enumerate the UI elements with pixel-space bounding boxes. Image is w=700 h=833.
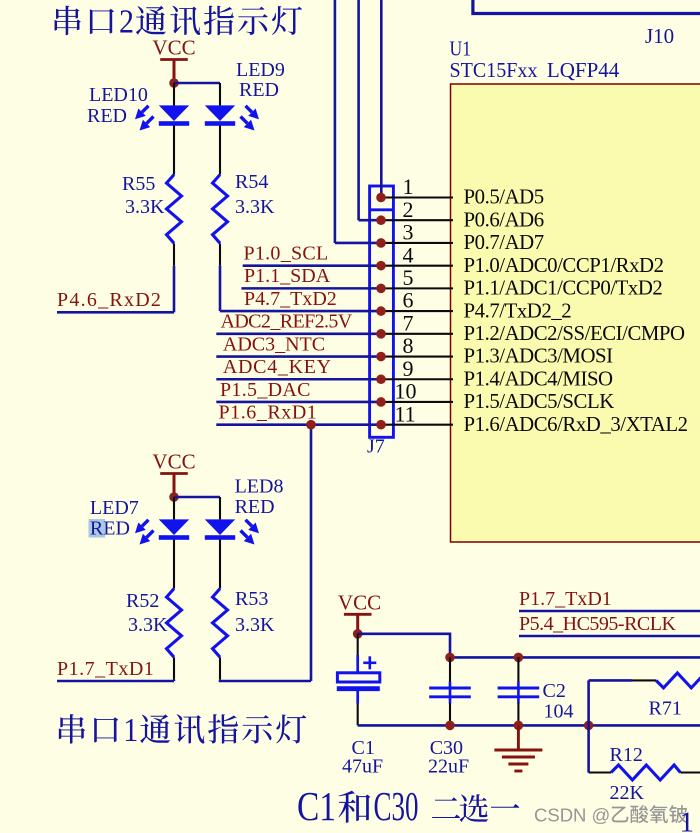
svg-text:P1.3/ADC3/MOSI: P1.3/ADC3/MOSI xyxy=(464,345,614,368)
svg-text:P1.7_TxD1: P1.7_TxD1 xyxy=(519,588,612,610)
svg-text:P1.0_SCL: P1.0_SCL xyxy=(244,242,329,264)
svg-text:3.3K: 3.3K xyxy=(128,614,168,636)
svg-text:P1.6_RxD1: P1.6_RxD1 xyxy=(219,402,318,424)
svg-text:J7: J7 xyxy=(367,436,385,458)
svg-text:P1.6/ADC6/RxD_3/XTAL2: P1.6/ADC6/RxD_3/XTAL2 xyxy=(464,413,688,436)
svg-text:P0.5/AD5: P0.5/AD5 xyxy=(464,186,544,209)
svg-text:J10: J10 xyxy=(645,24,674,48)
svg-text:RED: RED xyxy=(87,105,127,127)
svg-text:C30: C30 xyxy=(374,783,419,829)
svg-text:P1.5/ADC5/SCLK: P1.5/ADC5/SCLK xyxy=(464,390,615,413)
svg-text:4: 4 xyxy=(403,242,414,267)
svg-text:P4.7/TxD2_2: P4.7/TxD2_2 xyxy=(464,299,572,322)
svg-text:104: 104 xyxy=(544,701,574,723)
svg-text:RED: RED xyxy=(90,518,130,540)
svg-text:11: 11 xyxy=(395,401,416,426)
svg-text:R71: R71 xyxy=(649,698,682,720)
svg-text:ADC4_KEY: ADC4_KEY xyxy=(223,356,332,378)
svg-text:LED10: LED10 xyxy=(89,84,148,106)
svg-text:STC15Fxx: STC15Fxx xyxy=(450,58,538,82)
svg-text:1: 1 xyxy=(403,174,414,199)
svg-text:1: 1 xyxy=(123,712,138,749)
svg-text:LED8: LED8 xyxy=(235,476,284,498)
svg-text:R53: R53 xyxy=(235,588,268,610)
svg-text:R54: R54 xyxy=(235,171,268,193)
svg-text:CSDN @: CSDN @ xyxy=(534,805,610,826)
svg-text:P0.7/AD7: P0.7/AD7 xyxy=(464,231,544,254)
svg-text:LED7: LED7 xyxy=(90,497,139,519)
svg-text:P1.0/ADC0/CCP1/RxD2: P1.0/ADC0/CCP1/RxD2 xyxy=(464,254,664,277)
svg-text:7: 7 xyxy=(403,310,414,335)
svg-text:P0.6/AD6: P0.6/AD6 xyxy=(464,208,544,231)
svg-text:ADC2_REF2.5V: ADC2_REF2.5V xyxy=(221,311,353,333)
svg-text:6: 6 xyxy=(403,288,414,313)
svg-text:47uF: 47uF xyxy=(342,756,383,778)
svg-text:LED9: LED9 xyxy=(236,59,285,81)
svg-text:P1.4/ADC4/MISO: P1.4/ADC4/MISO xyxy=(464,367,614,390)
svg-text:R52: R52 xyxy=(126,590,159,612)
svg-text:2: 2 xyxy=(119,4,134,41)
svg-text:P1.7_TxD1: P1.7_TxD1 xyxy=(57,658,154,680)
svg-text:ADC3_NTC: ADC3_NTC xyxy=(223,333,325,355)
svg-text:2: 2 xyxy=(403,197,414,222)
svg-text:9: 9 xyxy=(403,356,414,381)
svg-text:3.3K: 3.3K xyxy=(235,196,275,218)
svg-text:R55: R55 xyxy=(122,173,155,195)
svg-text:1: 1 xyxy=(680,807,695,833)
svg-text:RED: RED xyxy=(239,79,279,101)
svg-text:P4.6_RxD2: P4.6_RxD2 xyxy=(57,289,162,311)
svg-text:3.3K: 3.3K xyxy=(125,196,165,218)
svg-text:5: 5 xyxy=(403,265,414,290)
svg-text:C1: C1 xyxy=(297,783,336,829)
svg-text:VCC: VCC xyxy=(152,450,195,474)
svg-text:22K: 22K xyxy=(610,782,645,804)
svg-text:C2: C2 xyxy=(543,680,566,702)
svg-text:P1.5_DAC: P1.5_DAC xyxy=(220,379,311,401)
svg-text:22uF: 22uF xyxy=(428,756,469,778)
svg-text:LQFP44: LQFP44 xyxy=(547,58,620,82)
svg-text:P5.4_HC595-RCLK: P5.4_HC595-RCLK xyxy=(519,613,676,635)
svg-text:VCC: VCC xyxy=(152,36,195,60)
svg-text:3.3K: 3.3K xyxy=(235,614,275,636)
svg-text:P1.1/ADC1/CCP0/TxD2: P1.1/ADC1/CCP0/TxD2 xyxy=(464,277,663,300)
svg-text:3: 3 xyxy=(403,220,414,245)
svg-text:10: 10 xyxy=(395,379,417,404)
svg-text:P1.2/ADC2/SS/ECI/CMPO: P1.2/ADC2/SS/ECI/CMPO xyxy=(464,322,686,345)
svg-text:P4.7_TxD2: P4.7_TxD2 xyxy=(244,288,337,310)
svg-text:R12: R12 xyxy=(610,744,643,766)
svg-text:VCC: VCC xyxy=(338,591,381,615)
svg-text:P1.1_SDA: P1.1_SDA xyxy=(244,265,331,287)
svg-text:8: 8 xyxy=(403,333,414,358)
svg-text:RED: RED xyxy=(235,496,275,518)
